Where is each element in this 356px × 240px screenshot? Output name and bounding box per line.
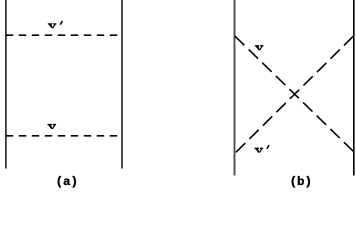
wire: diagram (b) crossed dashed interaction line v' (down-left) bbox=[235, 36, 353, 153]
svg-text:(b): (b) bbox=[290, 175, 312, 189]
wire: diagram (b) right fermion line bbox=[353, 0, 355, 176]
node label v (diagram b, upper) bbox=[255, 45, 264, 50]
wire: diagram (a) lower dashed interaction line v bbox=[6, 135, 122, 137]
node label v' (diagram a, upper) bbox=[48, 23, 57, 28]
svg-text:(a): (a) bbox=[56, 175, 78, 189]
node label v (diagram a, lower) bbox=[48, 124, 57, 129]
wire: diagram (a) upper dashed interaction line v' bbox=[6, 34, 122, 36]
wire: diagram (a) right fermion line bbox=[121, 0, 123, 169]
wire: diagram (a) left fermion line bbox=[5, 0, 7, 169]
node label v' (diagram b, lower) bbox=[255, 148, 264, 153]
wire: diagram (b) crossed dashed interaction line v (down-right) bbox=[235, 36, 354, 151]
wire: diagram (b) left fermion line bbox=[234, 0, 236, 176]
